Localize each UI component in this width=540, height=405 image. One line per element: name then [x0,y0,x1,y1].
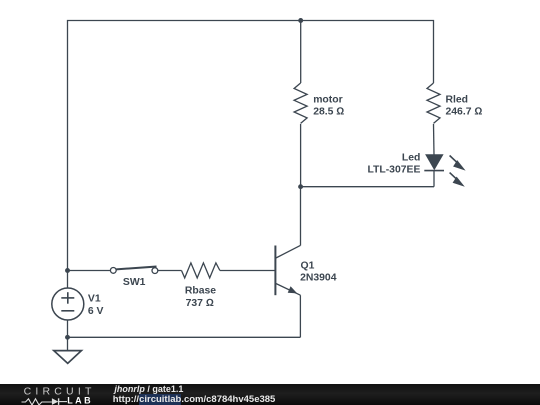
wire switch feed from left rail [68,270,111,272]
CircuitLab logo [0,384,110,405]
wire LED branch horizontal [301,186,434,188]
node junction ground net [65,335,70,340]
svg-text:Rbase: Rbase [185,286,216,297]
svg-text:motor: motor [313,94,342,105]
footer url [113,394,276,405]
wire Rbase to Q1 base [220,270,275,272]
svg-text:2N3904: 2N3904 [300,273,337,284]
wire LED cathode vertical [433,171,435,187]
ground symbol [54,351,82,364]
svg-text:737 Ω: 737 Ω [186,298,214,309]
node junction top rail / motor [298,18,303,23]
voltage source V1 6V [52,288,104,320]
wire collector node down to Q1 collector [300,187,302,246]
svg-text:LTL-307EE: LTL-307EE [367,164,420,175]
svg-text:Q1: Q1 [301,261,315,272]
LED Led LTL-307EE [367,153,465,187]
svg-text:246.7 Ω: 246.7 Ω [446,107,483,118]
transistor Q1 2N3904 NPN [275,245,336,295]
wire V1 bottom to ground node [67,320,69,337]
node junction collector / LED branch [298,184,303,189]
wire LED anode to Rled bottom [433,124,436,155]
switch SW1 [110,267,157,288]
resistor Rled 246.7 ohm [427,83,482,123]
svg-text:28.5 Ω: 28.5 Ω [313,107,344,118]
footer title jhonrlp / gate1.1 [114,384,183,394]
node junction left rail / switch [65,268,70,273]
wire bottom net emitter to ground node [68,336,301,338]
wire SW1 to Rbase [158,270,182,272]
wire Q1 emitter down to bottom net [299,295,301,337]
svg-text:V1: V1 [88,294,101,305]
svg-text:Led: Led [402,153,420,164]
resistor Rbase 737 ohm [182,263,220,309]
svg-text:6 V: 6 V [88,306,104,317]
wire motor top from top rail [300,21,302,84]
wire ground stub [67,337,69,350]
svg-text:SW1: SW1 [123,277,146,288]
wire motor bottom to collector node [300,124,302,187]
footer bar [0,384,540,405]
svg-text:Rled: Rled [446,94,469,105]
wire top net V1+ rail [68,21,434,271]
svg-text:LAB: LAB [67,395,93,405]
resistor motor 28.5 ohm [294,83,344,123]
wire left rail to V1 top [67,271,69,289]
